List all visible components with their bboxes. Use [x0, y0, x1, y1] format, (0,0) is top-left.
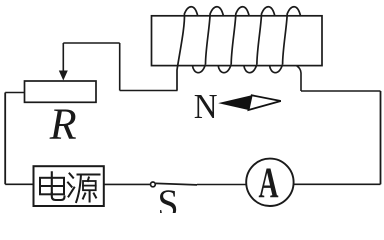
wire bottom left — [5, 183, 33, 185]
battery box 电源 — [34, 166, 104, 206]
wire battery to switch — [104, 183, 151, 185]
solenoid L winding — [177, 7, 301, 91]
wire horizontal under coil — [120, 90, 178, 92]
resistor R body — [25, 81, 97, 102]
switch S blade — [156, 183, 197, 185]
wire coil right lead — [297, 66, 301, 91]
wire rheostat left lead — [5, 92, 24, 94]
ammeter A body — [246, 159, 293, 206]
wire vertical left of coil — [119, 43, 121, 91]
wire right vertical — [380, 91, 382, 184]
wire top right horizontal — [301, 90, 381, 92]
wire top horizontal to rheostat arrow — [63, 42, 119, 44]
solenoid L core — [152, 16, 323, 66]
rheostat R slider arrow — [59, 43, 68, 81]
switch S contact — [151, 182, 156, 187]
wire switch to ammeter — [197, 184, 246, 186]
svg-text:A: A — [259, 160, 279, 207]
svg-text:S: S — [158, 181, 179, 213]
label 电 (dian) — [40, 172, 65, 200]
compass needle N pole (black) — [218, 95, 252, 110]
svg-text:R: R — [49, 100, 77, 149]
compass needle S pole (white) — [249, 95, 281, 110]
wire ammeter to right corner — [294, 183, 381, 185]
label 源 (yuan) — [68, 174, 100, 203]
wire left vertical — [4, 93, 6, 185]
svg-text:N: N — [194, 87, 218, 126]
